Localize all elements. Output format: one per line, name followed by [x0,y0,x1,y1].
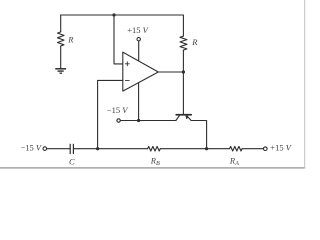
op-amp U1 [123,52,159,91]
wire emitter node to RA [207,148,230,150]
svg-text:−15 V: −15 V [20,143,42,153]
wire capacitor to node [73,148,147,150]
resistor R (left) [58,32,65,46]
svg-text:−15 V: −15 V [107,105,129,115]
terminal -15V mid circle [117,119,120,122]
op-amp plus input marker [125,62,129,66]
resistor RB [148,146,161,151]
resistor R (right) [180,36,187,50]
wire right branch lower [182,50,184,72]
transistor Q1 collector lead [176,116,180,121]
wire op-amp V- supply stem [138,83,140,121]
wire -15V to transistor collector [120,120,176,122]
svg-text:+15 V: +15 V [127,25,149,35]
svg-text:+15 V: +15 V [270,143,292,153]
svg-text:RB: RB [150,156,160,168]
wire left resistor top lead [60,15,62,32]
wire inverting input [98,80,123,148]
wire RB to emitter node [160,148,206,150]
terminal -15V bottom left circle [43,147,47,151]
op-amp minus input marker [125,79,129,81]
wire transistor base lead [182,72,184,114]
node junction inverting rail [96,147,99,150]
capacitor C [70,144,73,154]
svg-text:RA: RA [229,156,239,168]
wire emitter to bottom rail [191,121,207,149]
svg-text:R: R [191,37,198,47]
wire -15V to capacitor [47,148,71,150]
wire right branch upper [182,15,184,36]
border right [304,0,305,169]
wire op-amp V+ supply stem [138,41,140,61]
resistor RA [230,146,242,151]
node junction output [182,70,185,73]
wire op-amp output [158,71,183,73]
node junction V- supply [137,119,140,122]
terminal +15V top circle [137,38,140,41]
svg-text:R: R [67,35,74,45]
transistor Q1 base bar [176,114,191,116]
svg-text:C: C [69,156,75,166]
border bottom [0,167,305,168]
node junction top rail [112,13,115,16]
terminal +15V bottom right circle [264,147,268,151]
wire noninverting input drop [114,15,123,64]
wire top rail [61,14,184,16]
ground [55,69,66,73]
transistor Q1 emitter lead [187,116,191,121]
node junction emitter rail [205,147,208,150]
transistor Q1 emitter arrow [185,115,188,119]
wire RA to +15V terminal [242,148,264,150]
wire left resistor bottom lead [60,46,62,69]
